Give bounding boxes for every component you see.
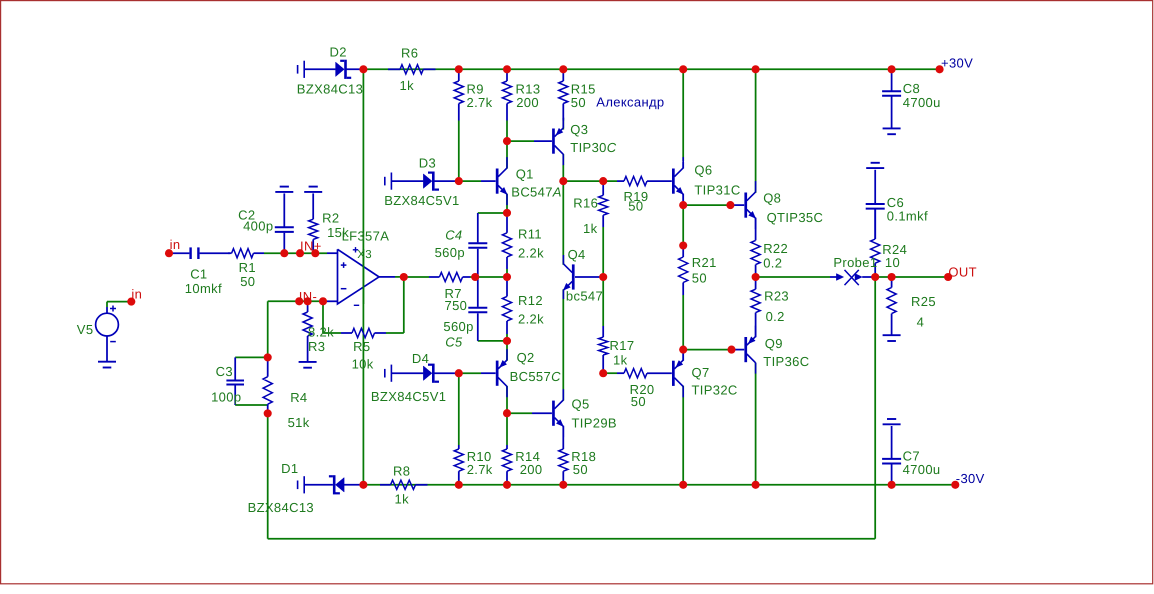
diode D3 BZX84C5V1 (zener) xyxy=(384,177,386,186)
junction dot R12/Q2 node xyxy=(503,337,511,345)
svg-text:D3: D3 xyxy=(419,156,436,171)
wire D3 node to Q1 base xyxy=(459,180,481,182)
node +30V endpoint xyxy=(936,65,944,73)
wire Q3 collector down to node xyxy=(562,154,564,181)
resistor R15 50 xyxy=(562,69,564,81)
svg-text:1k: 1k xyxy=(395,492,410,507)
svg-text:QTIP35C: QTIP35C xyxy=(767,210,824,225)
svg-text:D4: D4 xyxy=(412,351,429,366)
diode D1 BZX84C13 (zener, mirrored) xyxy=(297,481,299,490)
node in endpoint at V5 xyxy=(127,298,135,306)
resistor R11 2.2k xyxy=(506,213,508,233)
svg-text:R21: R21 xyxy=(692,255,717,270)
svg-text:IN-: IN- xyxy=(299,289,317,304)
resistor R24 10 xyxy=(874,209,876,239)
wire probe node to OUT xyxy=(875,276,948,278)
wire Q4 emitter down to Q5 collector xyxy=(562,289,564,400)
svg-text:100p: 100p xyxy=(211,390,241,405)
svg-text:R23: R23 xyxy=(764,288,789,303)
wire node to C4 branch xyxy=(478,212,507,214)
svg-text:R12: R12 xyxy=(518,293,543,308)
wire R7 to C4/C5 node xyxy=(470,276,507,278)
svg-text:IN+: IN+ xyxy=(300,238,322,253)
svg-text:Q4: Q4 xyxy=(568,247,586,262)
transistor Q2 BC557C (PNP) xyxy=(481,372,496,374)
wire Q3-collector line down to Q4 collector xyxy=(562,181,564,265)
resistor R5 10k xyxy=(341,332,352,334)
resistor R6 1k xyxy=(388,68,400,70)
wire C3 bottom branch xyxy=(235,404,268,406)
svg-text:1k: 1k xyxy=(613,353,628,368)
svg-text:0.2: 0.2 xyxy=(766,309,785,324)
svg-text:BZX84C5V1: BZX84C5V1 xyxy=(371,389,446,404)
resistor R19 50 xyxy=(617,180,624,182)
wire Q1 emitter to node xyxy=(506,194,508,213)
svg-text:50: 50 xyxy=(631,394,646,409)
junction dot R11/R12 node xyxy=(503,273,511,281)
svg-text:TIP31C: TIP31C xyxy=(694,183,740,198)
svg-text:BZX84C5V1: BZX84C5V1 xyxy=(384,193,459,208)
resistor R17 1k xyxy=(602,326,604,337)
wire output line R22 node to probe xyxy=(756,276,830,278)
resistor R23 0.2 xyxy=(755,277,757,289)
wire Q5-base node down to R14 xyxy=(506,413,508,445)
svg-text:400p: 400p xyxy=(243,219,273,234)
svg-text:200: 200 xyxy=(516,95,539,110)
ground below V5 xyxy=(98,361,116,363)
svg-text:2.2k: 2.2k xyxy=(518,245,544,260)
resistor R18 50 xyxy=(562,426,564,449)
junction dot Q2/Q5 node xyxy=(503,409,511,417)
wire node to R16/R19 xyxy=(563,180,617,182)
svg-text:50: 50 xyxy=(628,199,643,214)
wire Q9 collector down to bottom rail xyxy=(755,363,757,485)
svg-text:OUT: OUT xyxy=(948,264,977,279)
svg-text:Q7: Q7 xyxy=(692,365,710,380)
probe Probe1 xyxy=(830,276,840,278)
wire feedback left riser xyxy=(267,413,269,538)
svg-text:in: in xyxy=(170,237,181,252)
svg-text:R3: R3 xyxy=(308,339,325,354)
capacitor C1 10mkf xyxy=(169,252,189,254)
wire V5 to in node xyxy=(107,301,131,303)
wire Q2 collector to Q5 base node xyxy=(506,386,508,413)
svg-text:C5: C5 xyxy=(445,335,463,350)
resistor R3 8.2k xyxy=(307,301,309,312)
ground above C2 xyxy=(280,186,289,188)
transistor Q9 TIP36C (PNP) xyxy=(732,349,745,351)
wire top +30V rail xyxy=(363,68,939,70)
svg-text:X3: X3 xyxy=(357,249,372,261)
svg-text:R22: R22 xyxy=(763,241,788,256)
resistor R14 200 xyxy=(506,445,508,449)
svg-text:in: in xyxy=(131,287,142,302)
wire input after R1 to op-amp IN+ xyxy=(264,252,327,254)
resistor R8 1k xyxy=(380,484,391,486)
wire Q4 base node to R17 xyxy=(602,277,604,326)
transistor Q5 TIP29B (NPN) xyxy=(532,412,552,414)
op-amp U1 LF357A X3 xyxy=(327,252,338,254)
svg-text:BC557C: BC557C xyxy=(510,369,561,384)
resistor R16 1k xyxy=(602,181,604,195)
diode D4 BZX84C5V1 (zener) xyxy=(384,369,386,378)
svg-text:10mkf: 10mkf xyxy=(185,281,222,296)
svg-text:R25: R25 xyxy=(911,294,936,309)
svg-text:2.2k: 2.2k xyxy=(518,312,544,327)
ground above C6 xyxy=(871,162,880,164)
voltage source V5 xyxy=(106,307,108,313)
junction dots IN+ line xyxy=(280,249,288,257)
resistor R12 2.2k xyxy=(506,277,508,296)
wire top rail down to Q6 collector xyxy=(682,69,684,161)
svg-text:50: 50 xyxy=(571,95,586,110)
svg-text:R11: R11 xyxy=(518,227,542,242)
diode D2 BZX84C13 (zener) xyxy=(297,65,299,74)
resistor R2 15k xyxy=(312,193,314,219)
wire feedback: OUT node down xyxy=(874,277,876,539)
svg-text:R17: R17 xyxy=(610,338,635,353)
junction dot Q3 base node xyxy=(503,137,511,145)
wire R5 right to output node xyxy=(386,332,404,334)
svg-text:Александр: Александр xyxy=(596,94,664,109)
wire R5 vertical from IN- xyxy=(322,301,324,333)
svg-text:4700u: 4700u xyxy=(903,95,941,110)
junction dot op-amp output xyxy=(400,273,408,281)
ground above R2 xyxy=(309,186,318,188)
transistor Q1 BC547A (NPN) xyxy=(481,180,496,182)
wire Q6 emitter node to Q8 base xyxy=(683,204,731,206)
resistor R1 50 xyxy=(228,252,232,254)
junction dots D3/Q1 base line xyxy=(455,177,463,185)
wire Q6 emitter node down to R21 xyxy=(682,205,684,245)
ground below C8 xyxy=(883,127,901,129)
wire Q5 base xyxy=(507,412,532,414)
junction dots IN- line xyxy=(295,297,303,305)
wire R15 to Q3 emitter xyxy=(562,118,564,130)
svg-text:C4: C4 xyxy=(445,227,462,242)
svg-text:R2: R2 xyxy=(322,211,339,226)
svg-text:Q3: Q3 xyxy=(570,122,588,137)
wire C3 top branch xyxy=(235,356,268,358)
junction dots output line xyxy=(752,273,760,281)
svg-text:10: 10 xyxy=(885,255,900,270)
resistor R13 200 xyxy=(506,69,508,81)
junction dots Q7/Q9 line xyxy=(679,346,687,354)
junction dot R21 top xyxy=(679,241,687,249)
svg-text:0.1mkf: 0.1mkf xyxy=(887,208,928,223)
svg-text:C3: C3 xyxy=(216,364,233,379)
junction dot Q1 emitter node xyxy=(503,209,511,217)
wire top rail down to Q8 collector xyxy=(755,69,757,193)
svg-text:BZX84C13: BZX84C13 xyxy=(248,500,314,515)
wire D4 node down to R10 xyxy=(458,373,460,445)
svg-text:R6: R6 xyxy=(401,46,418,61)
svg-text:R16: R16 xyxy=(573,195,598,210)
svg-text:V5: V5 xyxy=(77,322,94,337)
wire R21 bottom to Q7 emitter node xyxy=(682,295,684,350)
wire Q7 emitter node to Q9 base xyxy=(683,349,731,351)
capacitor C5 560p xyxy=(477,277,479,307)
wire op-amp supply through (overdraw green) xyxy=(362,249,364,304)
svg-text:Q5: Q5 xyxy=(572,396,590,411)
svg-text:2.7k: 2.7k xyxy=(467,462,493,477)
transistor Q8 QTIP35C (NPN) xyxy=(732,204,745,206)
wire Q7 collector down to bottom rail xyxy=(682,386,684,485)
junction dot R4 top xyxy=(264,353,272,361)
junction dot Q4 base node xyxy=(599,273,607,281)
capacitor C6 0.1mkf xyxy=(874,170,876,203)
node -30V endpoint xyxy=(951,481,959,489)
junction dot R7/C4/C5 node xyxy=(471,273,479,281)
svg-text:2.7k: 2.7k xyxy=(467,95,493,110)
resistor R21 50 xyxy=(682,246,684,258)
svg-text:C1: C1 xyxy=(190,266,207,281)
wire IN- line to op-amp xyxy=(268,300,327,302)
ground above C7 xyxy=(887,418,896,420)
junction dots Q6/Q8 line xyxy=(679,201,687,209)
wire R16 bottom to Q4 base node xyxy=(602,227,604,277)
transistor Q7 TIP32C (PNP) xyxy=(672,361,675,386)
svg-text:Q6: Q6 xyxy=(694,162,712,177)
svg-text:Probe1: Probe1 xyxy=(833,255,877,270)
svg-text:+30V: +30V xyxy=(941,55,973,70)
svg-text:10k: 10k xyxy=(352,357,374,372)
wire R12 bottom node down to Q2 emitter xyxy=(506,334,508,361)
transistor Q4 bc547 (NPN, mirrored) xyxy=(575,276,603,278)
svg-text:BZX84C13: BZX84C13 xyxy=(297,82,363,97)
capacitor C8 4700u xyxy=(891,69,893,90)
svg-text:200: 200 xyxy=(520,462,543,477)
svg-text:4700u: 4700u xyxy=(903,462,941,477)
ground below R25 xyxy=(883,334,901,336)
resistor R20 50 xyxy=(617,372,624,374)
wire IN- down-left to R4 top xyxy=(267,301,269,357)
wire Q3 base to node xyxy=(507,140,534,142)
svg-text:TIP32C: TIP32C xyxy=(692,382,738,397)
svg-text:560p: 560p xyxy=(435,245,465,260)
resistor R25 4 xyxy=(891,277,893,288)
svg-text:TIP30C: TIP30C xyxy=(570,140,616,155)
svg-text:Q1: Q1 xyxy=(516,167,534,182)
svg-text:bc547: bc547 xyxy=(566,288,603,303)
svg-text:15k: 15k xyxy=(327,225,349,240)
junction dots bottom rail xyxy=(359,481,367,489)
svg-text:Q8: Q8 xyxy=(763,190,781,205)
wire R5 left lead xyxy=(323,332,341,334)
svg-text:750: 750 xyxy=(445,298,468,313)
svg-text:TIP36C: TIP36C xyxy=(763,354,809,369)
svg-text:1k: 1k xyxy=(583,221,598,236)
capacitor C4 560p xyxy=(477,213,479,242)
svg-text:-30V: -30V xyxy=(956,471,985,486)
resistor R7 750 xyxy=(429,276,439,278)
svg-text:Q2: Q2 xyxy=(517,350,535,365)
svg-text:50: 50 xyxy=(573,462,588,477)
capacitor C7 4700u xyxy=(891,426,893,458)
junction dots top rail xyxy=(359,65,367,73)
wire feedback bottom run xyxy=(268,538,876,540)
wire R13 to Q3 base node xyxy=(506,121,508,142)
capacitor C3 100p xyxy=(234,357,236,379)
svg-text:TIP29B: TIP29B xyxy=(572,415,617,430)
svg-text:51k: 51k xyxy=(288,415,310,430)
wire bottom -30V rail xyxy=(363,484,955,486)
svg-text:50: 50 xyxy=(692,271,707,286)
wire D2-D1 vertical (op-amp supply) xyxy=(362,69,364,485)
svg-text:R8: R8 xyxy=(393,464,410,479)
wire output node to R7 xyxy=(404,276,429,278)
transistor Q3 TIP30C (PNP) xyxy=(534,140,552,142)
svg-text:1k: 1k xyxy=(400,78,415,93)
wire R17 bottom to R20 xyxy=(603,372,617,374)
svg-text:C8: C8 xyxy=(903,81,920,96)
svg-text:8.2k: 8.2k xyxy=(308,325,334,340)
svg-text:R4: R4 xyxy=(290,390,307,405)
node in endpoint xyxy=(165,249,173,257)
node OUT endpoint xyxy=(944,273,952,281)
svg-text:4: 4 xyxy=(917,315,925,330)
svg-text:R5: R5 xyxy=(353,339,370,354)
resistor R4 51k xyxy=(267,357,269,376)
junction dot R4 bottom xyxy=(264,409,272,417)
wire R11 bottom to mid node xyxy=(506,269,508,277)
capacitor C2 400p xyxy=(283,193,285,226)
svg-text:0.2: 0.2 xyxy=(763,256,782,271)
wire op-amp output xyxy=(395,276,404,278)
junction dots D4/Q2 base line xyxy=(455,369,463,377)
resistor R10 2.7k xyxy=(458,445,460,449)
wire D4 node to Q2 base xyxy=(459,372,481,374)
wire R9 to D3 node xyxy=(458,121,460,182)
svg-text:Q9: Q9 xyxy=(765,336,783,351)
svg-text:560p: 560p xyxy=(443,319,473,334)
wire Q1 collector xyxy=(506,141,508,169)
resistor R9 2.7k xyxy=(458,69,460,81)
svg-text:50: 50 xyxy=(240,274,255,289)
svg-text:D1: D1 xyxy=(281,461,298,476)
svg-text:BC547A: BC547A xyxy=(511,184,562,199)
wire C5 bottom to R12 bottom node xyxy=(478,340,507,342)
svg-text:R1: R1 xyxy=(239,260,256,275)
ground below R3 xyxy=(299,361,317,363)
transistor Q6 TIP31C (NPN) xyxy=(672,169,675,194)
resistor R22 0.2 xyxy=(755,218,757,241)
svg-text:D2: D2 xyxy=(330,45,347,60)
